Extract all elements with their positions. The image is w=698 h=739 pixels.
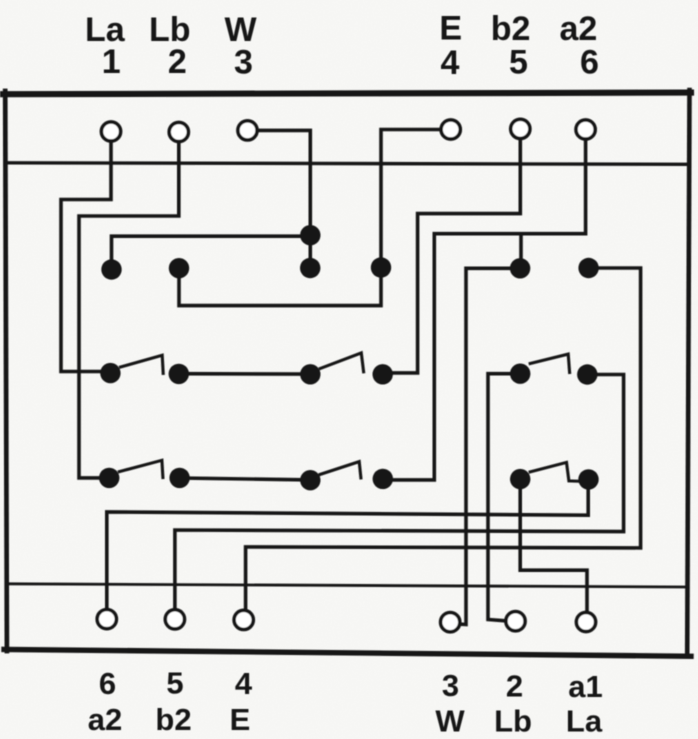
outer box left border — [5, 91, 7, 651]
switch row2 contact right — [169, 468, 189, 488]
terminal 1 La top — [101, 122, 120, 141]
wire node D6 right and down to bottom terminal 4-E — [246, 268, 641, 610]
svg-text:W: W — [435, 704, 465, 739]
terminal 5 b2 bottom — [165, 610, 184, 629]
right upper switch contact left — [510, 364, 530, 384]
svg-text:a2: a2 — [88, 702, 122, 737]
wire switch row1 middle segment — [179, 372, 310, 376]
wire terminal5-b2 to switch row1 right contact — [383, 139, 520, 373]
svg-text:2: 2 — [506, 669, 523, 704]
wire terminal1-La to switch row1 left contact — [61, 142, 111, 372]
switch row1b contact right — [373, 364, 393, 384]
terminal 4 E bottom — [234, 610, 253, 629]
wire terminal6-a2 to switch row2 right contact — [383, 140, 586, 480]
node D3 lower — [300, 258, 320, 278]
right lower switch contact right — [578, 469, 598, 489]
svg-text:E: E — [230, 702, 251, 737]
node D3 upper — [300, 225, 320, 245]
switch row2 lever 2 — [320, 462, 361, 478]
terminal 5 b2 top — [511, 119, 530, 138]
wire node D5 left and down to bottom terminal 3-W — [460, 268, 520, 624]
svg-text:b2: b2 — [155, 702, 191, 737]
switch row2b contact left — [300, 470, 320, 490]
terminal 3 W top — [238, 121, 257, 140]
terminal 2 Lb bottom — [506, 612, 525, 631]
switch row2 contact left — [99, 468, 119, 488]
terminal a1 La bottom — [576, 612, 595, 631]
top terminal strip separator line — [6, 163, 688, 165]
svg-text:6: 6 — [580, 44, 599, 82]
outer box right border — [687, 90, 689, 656]
svg-text:a1: a1 — [568, 669, 602, 704]
switch row1 lever 2 — [320, 353, 363, 372]
wire terminal4-E down to node D4 and across to node D2 — [179, 130, 440, 306]
svg-text:a2: a2 — [559, 10, 597, 48]
wire node D1 up and right to W node — [112, 236, 311, 269]
wire stacked node upper to lower — [308, 235, 312, 268]
svg-text:4: 4 — [440, 44, 459, 82]
svg-text:La: La — [566, 704, 603, 739]
wire right switch upper left contact down to bottom terminal 2-Lb — [488, 374, 520, 621]
switch row2 lever 1 — [119, 460, 162, 477]
node D4 — [371, 257, 391, 277]
terminal 6 a2 top — [576, 120, 595, 139]
right upper switch lever — [530, 354, 569, 372]
node D2 — [169, 258, 189, 278]
svg-text:5: 5 — [509, 44, 528, 82]
svg-text:3: 3 — [442, 668, 459, 703]
switch row1 contact right — [169, 364, 189, 384]
svg-text:2: 2 — [168, 43, 187, 81]
svg-text:1: 1 — [102, 43, 121, 81]
wire switch row2 middle segment — [180, 478, 311, 480]
wire right switch lower left contact down to bottom terminal a1 — [520, 489, 587, 611]
outer box bottom border — [4, 649, 691, 656]
svg-text:Lb: Lb — [494, 704, 532, 739]
node D6 — [578, 258, 598, 278]
node D5 — [510, 258, 530, 278]
right lower switch contact left — [510, 469, 530, 489]
terminal 2 Lb top — [169, 122, 188, 141]
wire terminal3-W down to stacked node — [258, 130, 310, 235]
terminal 4 E top — [441, 120, 460, 139]
outer box top border — [3, 93, 691, 95]
wire bottom terminal 6-a2 up and right to right switch lower right contact — [107, 490, 588, 609]
switch row1 lever 1 — [121, 355, 164, 373]
switch row2b contact right — [373, 469, 393, 489]
wire terminal2-Lb to switch row2 left contact — [79, 143, 179, 478]
terminal 6 a2 bottom — [97, 610, 116, 629]
switch row1 contact left — [100, 363, 120, 383]
svg-text:4: 4 — [235, 666, 253, 701]
wire bottom terminal 5-b2 up and right to right switch upper right contact — [175, 375, 624, 609]
right lower switch lever — [530, 462, 577, 481]
svg-text:6: 6 — [99, 666, 116, 701]
right upper switch contact right — [577, 364, 597, 384]
svg-text:5: 5 — [166, 666, 183, 701]
svg-text:E: E — [439, 10, 462, 48]
wire node D5 stub up to a2 line — [519, 235, 523, 269]
svg-text:3: 3 — [234, 44, 253, 82]
switch row1b contact left — [300, 364, 320, 384]
svg-text:b2: b2 — [491, 10, 531, 48]
terminal 3 W bottom — [441, 613, 460, 632]
bottom terminal strip separator line — [6, 584, 688, 587]
node D1 — [101, 259, 121, 279]
